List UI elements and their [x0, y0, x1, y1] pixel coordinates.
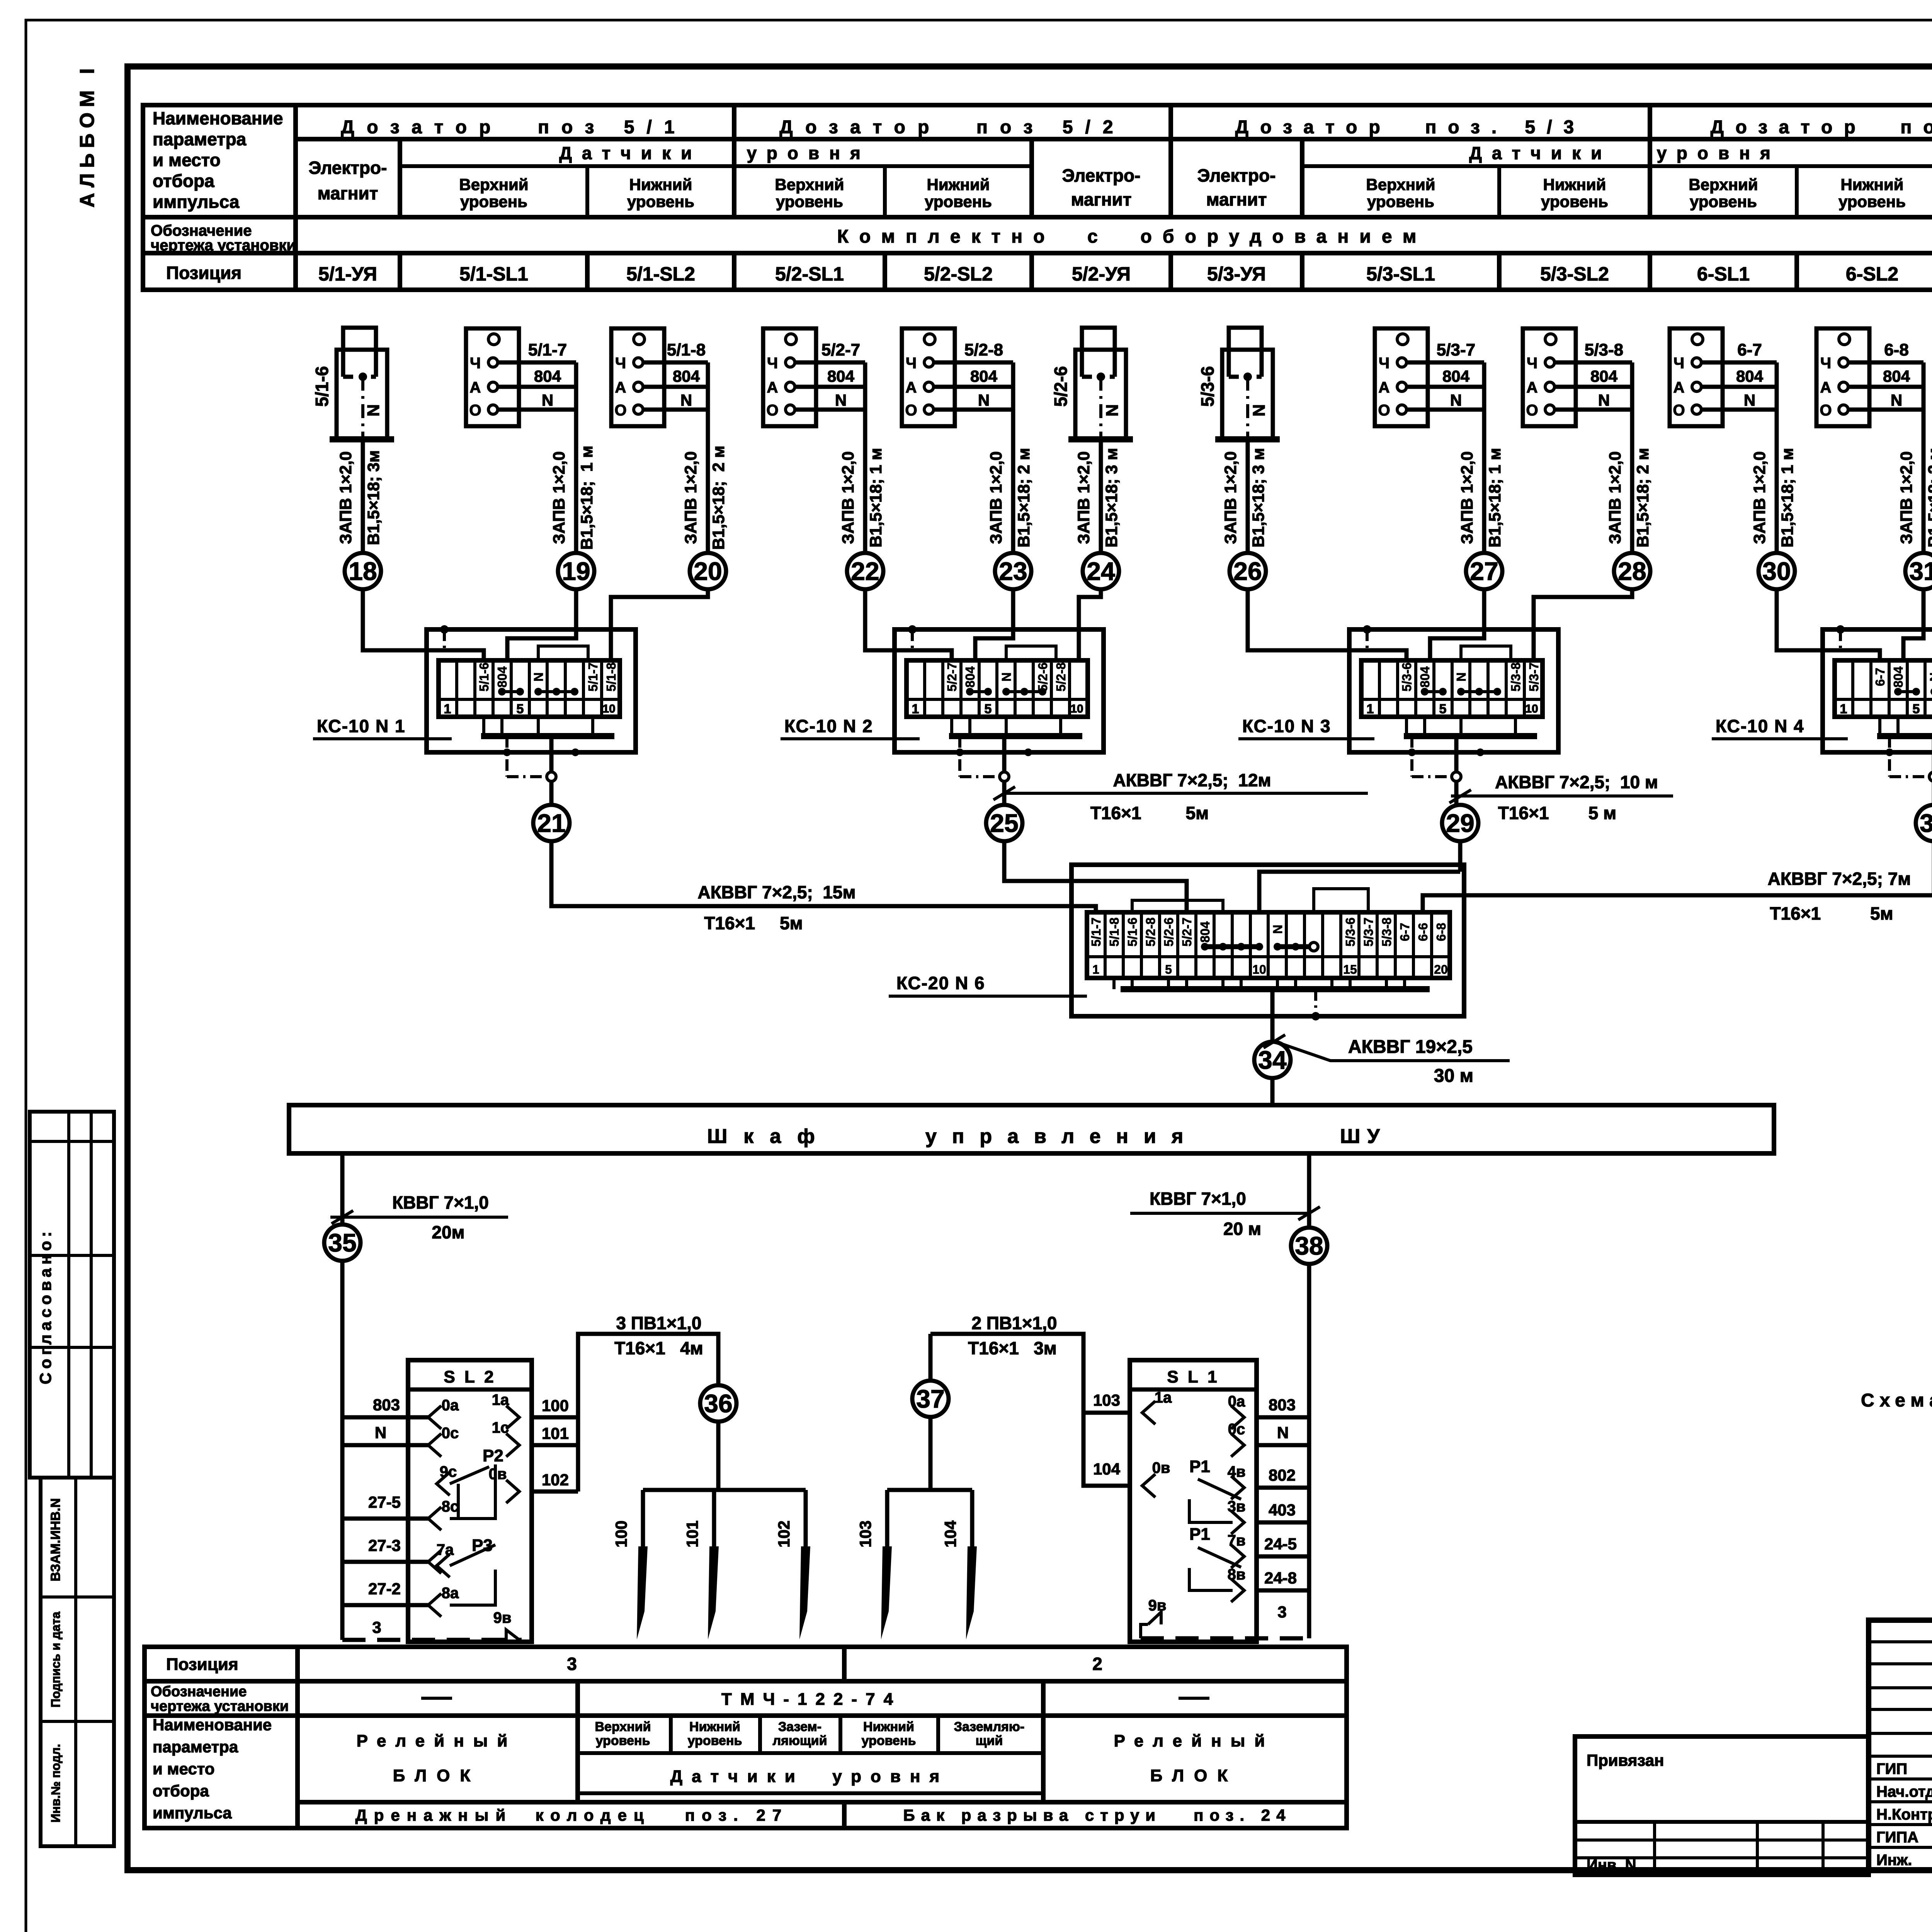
incoming wire left into КС-10 N 2	[865, 589, 952, 660]
wire routing nest of КС-10 N 1	[538, 646, 588, 660]
svg-text:1: 1	[912, 702, 919, 716]
svg-text:Позиция: Позиция	[166, 1655, 238, 1674]
SL1 input riser 103/104	[930, 1334, 1130, 1486]
svg-text:103: 103	[856, 1520, 874, 1548]
svg-text:0в: 0в	[489, 1466, 507, 1483]
wire from 5/1-6	[361, 439, 365, 553]
wire from 5/3-6	[1246, 439, 1250, 553]
svg-text:26: 26	[1233, 557, 1262, 585]
svg-text:N: N	[835, 391, 847, 409]
svg-text:0с: 0с	[1228, 1421, 1245, 1438]
electromagnet 5/3-6	[1222, 350, 1273, 439]
svg-text:10: 10	[602, 702, 615, 715]
svg-text:104: 104	[941, 1520, 959, 1548]
svg-text:КС-10 N 1: КС-10 N 1	[317, 716, 406, 736]
svg-text:3: 3	[372, 1618, 381, 1636]
cable number circle 22	[847, 553, 883, 589]
svg-text:N: N	[1450, 391, 1462, 409]
svg-text:S L 1: S L 1	[1167, 1367, 1219, 1386]
svg-text:уровень: уровень	[460, 192, 527, 211]
svg-text:А: А	[1379, 379, 1390, 396]
svg-text:103: 103	[1093, 1391, 1120, 1409]
svg-text:N: N	[1454, 672, 1468, 682]
svg-text:5/3-6: 5/3-6	[1400, 662, 1414, 691]
terminal strip of КС-10 N 4	[1835, 660, 1932, 717]
level sensor 6-8	[1816, 328, 1869, 426]
level sensor 6-7	[1670, 328, 1723, 426]
ground bus bar of КС-10 N 1	[481, 733, 614, 739]
incoming wire centre into КС-10 N 4	[1903, 589, 1923, 660]
svg-text:36: 36	[704, 1389, 732, 1418]
incoming wire centre into КС-10 N 2	[975, 589, 1013, 660]
terminal jumpers of КС-10 N 4	[1898, 690, 1916, 693]
svg-text:N: N	[680, 391, 692, 409]
svg-text:А: А	[1527, 379, 1538, 396]
svg-text:18: 18	[349, 557, 377, 585]
svg-text:0а: 0а	[442, 1397, 459, 1414]
junction box КС-10 N 2 outline	[895, 629, 1104, 752]
svg-text:Нижний: Нижний	[863, 1719, 914, 1734]
svg-text:5/1-7: 5/1-7	[528, 340, 567, 359]
earth dash-dot link of КС-10 N 1	[505, 736, 509, 777]
wire from ShU to circle 35	[340, 1153, 345, 1225]
svg-text:Электро-: Электро-	[1062, 165, 1141, 185]
cable number circle 33	[1916, 805, 1932, 841]
svg-text:9в: 9в	[1148, 1597, 1167, 1614]
svg-text:Обозначение: Обозначение	[151, 1684, 247, 1700]
right relay feeder bus	[1307, 1264, 1311, 1624]
svg-text:А: А	[1673, 379, 1685, 396]
SL2 input wire 27-3	[342, 1560, 428, 1564]
svg-text:Р2: Р2	[483, 1446, 503, 1465]
terminal stubs below strip of КС-10 N 4	[1878, 717, 1881, 736]
svg-text:отбора: отбора	[153, 171, 214, 191]
relay block SL2 outline	[408, 1360, 532, 1642]
svg-text:22: 22	[851, 557, 879, 585]
svg-text:6-SL2: 6-SL2	[1846, 263, 1898, 285]
incoming wire right into КС-10 N 3	[1534, 589, 1632, 660]
svg-text:5/3-6: 5/3-6	[1197, 366, 1218, 407]
wire routing nest of КС-10 N 3	[1461, 646, 1511, 660]
earth electrode 102	[804, 1490, 808, 1548]
svg-text:N: N	[1744, 391, 1755, 409]
svg-text:Т16×1 5 м: Т16×1 5 м	[1498, 803, 1616, 823]
svg-text:5/2-7: 5/2-7	[945, 662, 959, 691]
svg-text:КС-10 N 3: КС-10 N 3	[1242, 716, 1331, 736]
svg-text:31: 31	[1909, 557, 1932, 585]
svg-text:Дозатор поз. 5/3: Дозатор поз. 5/3	[1235, 117, 1586, 138]
svg-text:21: 21	[537, 809, 565, 837]
svg-text:802: 802	[1269, 1466, 1296, 1484]
svg-text:Верхний: Верхний	[1689, 175, 1758, 194]
SL2 relay P2 contact lines	[437, 1472, 450, 1495]
svg-text:Верхний: Верхний	[595, 1719, 651, 1734]
svg-text:Схема выполнена на листах 7: Схема выполнена на листах 7...10	[1861, 1390, 1932, 1411]
cable number circle 18	[345, 553, 381, 589]
svg-text:N: N	[1277, 1423, 1289, 1442]
svg-text:30: 30	[1762, 557, 1791, 585]
svg-text:100: 100	[542, 1396, 569, 1415]
terminal jumpers of КС-10 N 2	[970, 690, 988, 693]
svg-text:ЗАПВ 1×2,0: ЗАПВ 1×2,0	[682, 451, 700, 544]
svg-text:А: А	[470, 379, 481, 396]
svg-text:5/1-УЯ: 5/1-УЯ	[318, 263, 377, 285]
svg-text:магнит: магнит	[318, 183, 378, 203]
svg-text:5/1-6: 5/1-6	[477, 662, 491, 691]
svg-text:5/1-8: 5/1-8	[667, 340, 706, 359]
svg-text:6-7: 6-7	[1873, 668, 1887, 686]
svg-text:5/1-6: 5/1-6	[1125, 917, 1139, 946]
svg-text:ШУ: ШУ	[1340, 1125, 1387, 1148]
svg-text:3: 3	[1277, 1603, 1286, 1621]
svg-text:104: 104	[1093, 1460, 1121, 1478]
cable number circle 27	[1466, 553, 1502, 589]
svg-text:уровень: уровень	[627, 192, 694, 211]
terminal strip of КС-10 N 2	[906, 660, 1088, 717]
svg-text:Ч: Ч	[1379, 355, 1389, 372]
svg-text:Ч: Ч	[1673, 355, 1684, 372]
cable number circle 25	[986, 805, 1022, 841]
cable number circle 38	[1291, 1228, 1327, 1264]
svg-text:Комплектно с оборудованием: Комплектно с оборудованием	[837, 226, 1427, 247]
svg-text:5/3-SL2: 5/3-SL2	[1540, 263, 1609, 285]
earth electrode 100	[641, 1490, 645, 1548]
svg-text:4в: 4в	[1228, 1463, 1246, 1480]
level sensor 5/3-7	[1375, 328, 1428, 426]
cable bus of 6-7	[1775, 362, 1779, 553]
svg-text:N: N	[1250, 404, 1269, 417]
svg-text:Ч: Ч	[1527, 355, 1537, 372]
svg-text:В1,5×18; 1 м: В1,5×18; 1 м	[1486, 448, 1504, 548]
svg-text:чертежа установки: чертежа установки	[151, 1698, 289, 1714]
svg-text:20м: 20м	[432, 1222, 464, 1242]
svg-text:804: 804	[1198, 921, 1212, 943]
level sensor 5/1-7	[466, 328, 519, 426]
earth electrode 104	[970, 1490, 975, 1548]
level sensor 5/2-7	[763, 328, 816, 426]
svg-text:КС-10 N 2: КС-10 N 2	[784, 716, 873, 736]
cable label AKVVG 19x2,5 30m	[1264, 1035, 1285, 1048]
svg-text:7в: 7в	[1228, 1532, 1246, 1549]
svg-text:804: 804	[495, 666, 509, 688]
svg-text:Ч: Ч	[615, 355, 626, 372]
svg-text:6-SL1: 6-SL1	[1697, 263, 1750, 285]
svg-text:20: 20	[1434, 963, 1448, 976]
svg-text:Позиция: Позиция	[166, 263, 241, 283]
svg-text:804: 804	[1891, 666, 1905, 688]
svg-text:5/2-6: 5/2-6	[1051, 366, 1071, 407]
svg-text:804: 804	[534, 367, 561, 385]
svg-text:Нижний: Нижний	[629, 175, 692, 194]
svg-text:5/2-7: 5/2-7	[1180, 917, 1194, 946]
svg-text:8а: 8а	[442, 1585, 459, 1602]
incoming wire left into КС-10 N 4	[1777, 589, 1880, 660]
terminal stubs below strip of КС-10 N 3	[1405, 717, 1408, 736]
svg-text:804: 804	[1736, 367, 1764, 385]
svg-text:N: N	[978, 391, 990, 409]
cable number circle 24	[1083, 553, 1119, 589]
svg-text:ЗАПВ 1×2,0: ЗАПВ 1×2,0	[1750, 451, 1769, 544]
svg-text:ЗАПВ 1×2,0: ЗАПВ 1×2,0	[550, 451, 568, 544]
svg-text:Наименование: Наименование	[153, 108, 283, 128]
svg-text:ГИП: ГИП	[1876, 1760, 1907, 1777]
trunk cable from 29 to KC-20 with label AKVVG 7x2,5 10m	[1458, 841, 1463, 872]
svg-text:Датчики уровня: Датчики уровня	[670, 1767, 949, 1786]
svg-text:15: 15	[1343, 963, 1357, 976]
svg-text:N: N	[999, 672, 1014, 682]
svg-text:5/3-7: 5/3-7	[1437, 340, 1475, 359]
incoming wire left into КС-10 N 3	[1248, 589, 1406, 660]
svg-text:10: 10	[1525, 702, 1538, 715]
svg-text:3: 3	[567, 1654, 577, 1674]
trunk cable from 33 to KC-20 with label AKVVG 7x2,5 7m	[1464, 841, 1932, 895]
earth dash-dot link of КС-10 N 4	[1888, 736, 1891, 777]
svg-text:24-5: 24-5	[1264, 1535, 1297, 1553]
SL1 wire 3 dashed	[1141, 1636, 1309, 1641]
earth dash-dot of KC-20 N6	[1314, 989, 1317, 1016]
svg-text:100: 100	[612, 1520, 630, 1548]
svg-text:Зазем-: Зазем-	[778, 1719, 821, 1734]
svg-text:6-8: 6-8	[1884, 340, 1909, 359]
svg-text:Ч: Ч	[470, 355, 481, 372]
cable label KVVG 7x1,0 20m left	[330, 1216, 508, 1219]
svg-text:импульса: импульса	[153, 192, 240, 212]
svg-text:ЗАПВ 1×2,0: ЗАПВ 1×2,0	[1458, 451, 1476, 544]
svg-text:Дренажный колодец поз. 27: Дренажный колодец поз. 27	[355, 1806, 788, 1824]
svg-text:уровень: уровень	[1690, 192, 1757, 211]
svg-text:10: 10	[1070, 702, 1083, 715]
svg-text:804: 804	[673, 367, 700, 385]
svg-text:804: 804	[1883, 367, 1910, 385]
svg-text:Т16×1 5м: Т16×1 5м	[704, 913, 803, 933]
svg-text:Дозатор поз. 6: Дозатор поз. 6	[1711, 117, 1932, 138]
cable number circle 36	[700, 1385, 736, 1422]
earth electrode 101	[712, 1490, 716, 1548]
ground bus bar of КС-10 N 3	[1404, 733, 1537, 739]
cable number circle 34	[1254, 1042, 1291, 1078]
SL2 exit contact 9v	[506, 1630, 519, 1640]
outgoing cable of КС-10 N 2	[1002, 736, 1007, 772]
svg-text:Нач.отд: Нач.отд	[1876, 1783, 1932, 1800]
svg-text:ТМЧ-122-74: ТМЧ-122-74	[721, 1690, 901, 1709]
svg-text:S L 2: S L 2	[444, 1367, 496, 1386]
top parameter table grid	[143, 105, 1932, 290]
svg-text:ЗАПВ 1×2,0: ЗАПВ 1×2,0	[1221, 451, 1240, 544]
wire routing nest of KC-20 N6	[1071, 906, 1096, 912]
svg-text:Электро-: Электро-	[309, 158, 387, 178]
svg-text:5/3-7: 5/3-7	[1361, 917, 1376, 946]
SL2 relay P3 contact lines	[437, 1554, 450, 1577]
svg-text:5/2-8: 5/2-8	[964, 340, 1003, 359]
cable number circle 26	[1230, 553, 1266, 589]
junction box KC-20 N6 outline	[1071, 865, 1464, 1016]
svg-text:29: 29	[1446, 809, 1474, 837]
junction box КС-10 N 1 outline	[427, 629, 636, 752]
level sensor 5/2-8	[902, 328, 955, 426]
svg-text:ЗАПВ 1×2,0: ЗАПВ 1×2,0	[839, 451, 857, 544]
terminal jumpers of КС-10 N 3	[1425, 690, 1443, 693]
bottom equipment table grid	[145, 1647, 1347, 1828]
svg-text:и место: и место	[153, 150, 221, 170]
svg-text:3в: 3в	[1228, 1498, 1246, 1515]
outgoing cable of КС-10 N 3	[1454, 736, 1459, 772]
outgoing cable of КС-10 N 1	[549, 736, 554, 772]
svg-text:уровень: уровень	[1838, 192, 1906, 211]
ground bus bar of KC-20 N6	[1121, 986, 1430, 992]
svg-text:Датчики уровня: Датчики уровня	[559, 143, 871, 163]
svg-text:803: 803	[373, 1396, 400, 1414]
svg-text:5/3-7: 5/3-7	[1527, 662, 1541, 691]
svg-text:А: А	[767, 379, 778, 396]
svg-text:5: 5	[985, 702, 992, 716]
svg-text:Верхний: Верхний	[775, 175, 844, 194]
svg-text:Инв.№ подл.: Инв.№ подл.	[49, 1744, 63, 1822]
svg-text:параметра: параметра	[153, 1738, 238, 1756]
svg-text:Т16×1 3м: Т16×1 3м	[968, 1338, 1057, 1358]
svg-text:101: 101	[683, 1520, 701, 1548]
svg-text:5/3-6: 5/3-6	[1343, 917, 1357, 946]
svg-text:Нижний: Нижний	[927, 175, 990, 194]
svg-text:0с: 0с	[442, 1425, 459, 1442]
svg-text:отбора: отбора	[153, 1782, 209, 1800]
svg-text:6-8: 6-8	[1434, 923, 1448, 941]
trunk cable from 25 to KC-20 with label AKVVG 7x2,5 12m	[1004, 841, 1071, 881]
svg-text:Дозатор поз 5/2: Дозатор поз 5/2	[779, 117, 1125, 138]
SL2 input wire N	[342, 1443, 428, 1447]
electromagnet 5/1-6	[337, 350, 387, 439]
svg-text:В1,5×18; 3 м: В1,5×18; 3 м	[1102, 448, 1121, 548]
svg-text:5/3-8: 5/3-8	[1379, 917, 1394, 946]
svg-text:804: 804	[963, 666, 977, 688]
svg-text:ВЗАМ.ИНВ.N: ВЗАМ.ИНВ.N	[48, 1498, 63, 1581]
cable number circle 28	[1614, 553, 1650, 589]
relay block SL1 outline	[1130, 1360, 1257, 1642]
svg-text:БЛОК: БЛОК	[393, 1766, 480, 1785]
svg-text:804: 804	[1442, 367, 1470, 385]
svg-text:24: 24	[1087, 557, 1115, 585]
svg-text:В1,5×18; 2 м: В1,5×18; 2 м	[1634, 448, 1652, 548]
svg-text:АКВВГ 7×2,5; 12м: АКВВГ 7×2,5; 12м	[1113, 770, 1271, 790]
terminal jumpers of KC-20 N6	[1205, 944, 1259, 949]
terminal jumpers of КС-10 N 1	[502, 690, 520, 693]
svg-text:В1,5×18; 1 м: В1,5×18; 1 м	[1778, 448, 1797, 548]
svg-text:О: О	[614, 402, 626, 419]
earth dash-dot link of КС-10 N 3	[1410, 736, 1413, 777]
svg-text:35: 35	[328, 1228, 356, 1257]
svg-text:О: О	[1673, 402, 1685, 419]
svg-text:5/1-8: 5/1-8	[1107, 917, 1121, 946]
svg-text:ГИПА: ГИПА	[1876, 1829, 1918, 1846]
svg-text:Нижний: Нижний	[1543, 175, 1606, 194]
svg-text:5/1-8: 5/1-8	[604, 662, 618, 691]
svg-text:0а: 0а	[1228, 1393, 1245, 1410]
svg-text:Наименование: Наименование	[153, 1716, 272, 1734]
wire from ShU to circle 38	[1307, 1153, 1311, 1228]
svg-text:Верхний: Верхний	[459, 175, 528, 194]
svg-text:КВВГ 7×1,0: КВВГ 7×1,0	[392, 1192, 489, 1213]
ground wire from 37	[912, 1381, 949, 1417]
svg-text:магнит: магнит	[1071, 189, 1132, 209]
svg-text:6-6: 6-6	[1416, 923, 1430, 941]
ground header from 36	[716, 1422, 721, 1490]
svg-text:804: 804	[1418, 666, 1432, 688]
svg-text:Т16×1 4м: Т16×1 4м	[614, 1338, 703, 1358]
svg-text:Дозатор поз 5/1: Дозатор поз 5/1	[341, 117, 687, 138]
svg-text:3 ПВ1×1,0: 3 ПВ1×1,0	[616, 1313, 701, 1333]
svg-text:Нижний: Нижний	[689, 1719, 740, 1734]
svg-text:Релейный: Релейный	[1114, 1731, 1274, 1750]
svg-text:N: N	[375, 1423, 386, 1442]
svg-text:Согласовано:: Согласовано:	[36, 1228, 54, 1384]
SL2 output ladder vertical	[576, 1417, 580, 1492]
svg-text:5/2-8: 5/2-8	[1143, 917, 1158, 946]
svg-text:параметра: параметра	[153, 129, 247, 149]
svg-text:О: О	[1378, 402, 1390, 419]
svg-text:25: 25	[990, 809, 1018, 837]
earth electrode 103	[885, 1490, 889, 1548]
svg-text:ЗАПВ 1×2,0: ЗАПВ 1×2,0	[1606, 451, 1624, 544]
cable number circle 30	[1759, 553, 1795, 589]
cable number circle 19	[558, 553, 594, 589]
svg-text:803: 803	[1269, 1396, 1296, 1414]
svg-text:102: 102	[542, 1471, 569, 1489]
svg-text:ЗАПВ 1×2,0: ЗАПВ 1×2,0	[337, 451, 355, 544]
svg-text:N: N	[1927, 672, 1932, 682]
junction box КС-10 N 4 outline	[1823, 629, 1932, 752]
cable number circle 21	[533, 805, 570, 841]
cable label KVVG 7x1,0 20m right	[1130, 1212, 1309, 1215]
svg-text:Верхний: Верхний	[1366, 175, 1435, 194]
svg-text:управления: управления	[925, 1125, 1199, 1148]
svg-text:Релейный: Релейный	[357, 1731, 517, 1750]
svg-text:6-7: 6-7	[1737, 340, 1762, 359]
svg-text:Т16×1 5м: Т16×1 5м	[1090, 803, 1209, 823]
terminal stubs below strip of КС-10 N 1	[482, 717, 485, 736]
svg-text:N: N	[1598, 391, 1610, 409]
svg-text:КС-20 N 6: КС-20 N 6	[896, 973, 985, 993]
incoming wire right into КС-10 N 1	[611, 589, 708, 660]
svg-text:В1,5×18; 3м: В1,5×18; 3м	[364, 450, 383, 545]
svg-text:20 м: 20 м	[1223, 1219, 1261, 1239]
title block upper row lines	[1869, 1640, 1932, 1643]
svg-text:27: 27	[1470, 557, 1498, 585]
svg-text:В1,5×18; 2 м: В1,5×18; 2 м	[1925, 448, 1932, 548]
svg-text:КВВГ 7×1,0: КВВГ 7×1,0	[1150, 1189, 1246, 1209]
cable bus of 5/3-7	[1482, 362, 1486, 553]
svg-text:О: О	[1526, 402, 1538, 419]
svg-text:N: N	[1270, 925, 1285, 934]
svg-text:5: 5	[1439, 702, 1447, 716]
svg-text:34: 34	[1258, 1046, 1287, 1074]
svg-text:уровень: уровень	[1541, 192, 1608, 211]
svg-text:Нижний: Нижний	[1841, 175, 1904, 194]
outgoing cable 34 of KC-20 N6	[1270, 989, 1275, 1042]
svg-text:5: 5	[517, 702, 524, 716]
title block outline	[1869, 1620, 1932, 1870]
svg-text:27-2: 27-2	[368, 1580, 401, 1598]
privyazan stamp block	[1575, 1736, 1869, 1875]
svg-text:N: N	[542, 391, 553, 409]
svg-text:уровень: уровень	[925, 192, 992, 211]
svg-text:Ч: Ч	[767, 355, 778, 372]
svg-text:уровень: уровень	[862, 1733, 916, 1748]
control cabinet bar Shkaf upravleniya ShU	[289, 1105, 1774, 1153]
svg-text:Подпись и дата: Подпись и дата	[49, 1612, 63, 1708]
svg-text:5/3-8: 5/3-8	[1509, 662, 1523, 691]
svg-text:27-5: 27-5	[368, 1493, 401, 1511]
svg-text:Т16×1 5м: Т16×1 5м	[1770, 903, 1893, 923]
title block signature rows	[1869, 1755, 1932, 1758]
